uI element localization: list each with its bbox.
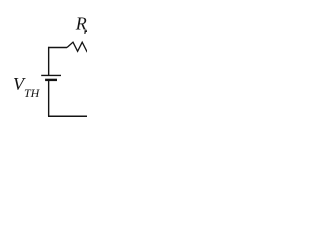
resistor R_TH (zigzag, cut off at right edge) — [67, 42, 89, 51]
wire: bottom horizontal to right edge (cut off) — [48, 115, 88, 117]
battery V_TH long (+) plate — [41, 74, 61, 76]
wire: lower vertical from battery - plate down to bottom wire — [48, 81, 50, 117]
battery V_TH short (-) plate — [45, 79, 57, 81]
wire: top horizontal from source to resistor — [48, 47, 67, 49]
wire: left vertical from top wire down to battery + plate — [48, 47, 50, 76]
subscript T of R_TH: visible sliver of T bar + serif drop at image edge — [85, 30, 89, 32]
svg-text:TH: TH — [24, 86, 41, 100]
